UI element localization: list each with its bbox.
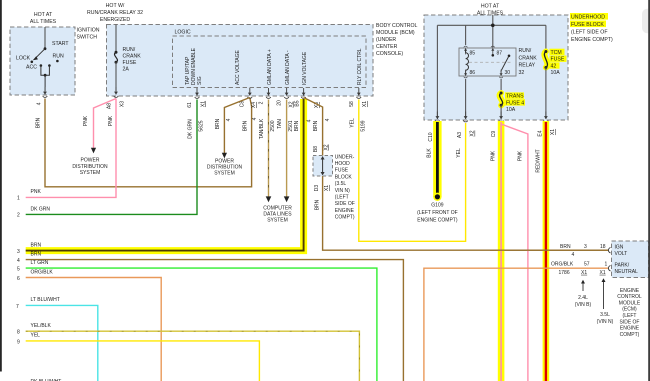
svg-text:ACC: ACC	[26, 65, 37, 71]
ECM pin IGN VOLT	[608, 244, 627, 256]
svg-text:UNDERHOOD: UNDERHOOD	[571, 14, 605, 20]
svg-text:TAN/BLK: TAN/BLK	[259, 118, 265, 139]
run/crank fuse 2A	[114, 25, 141, 92]
svg-text:IGN: IGN	[615, 244, 624, 250]
svg-text:X1: X1	[201, 101, 207, 107]
svg-text:PNK: PNK	[83, 115, 89, 126]
svg-text:MODULE (BCM): MODULE (BCM)	[376, 30, 415, 36]
svg-text:RELAY: RELAY	[519, 63, 536, 69]
label: HOT AT ALL TIMES (right)	[477, 3, 504, 16]
wire PNK 1 from BCM fuse to left edge	[17, 99, 116, 202]
wire YEL (wire 9)	[17, 333, 259, 381]
svg-text:SIDE OF: SIDE OF	[619, 319, 639, 325]
pin 2 GMLAN DATA +	[259, 49, 274, 104]
label: HOT AT ALL TIMES (left)	[30, 12, 57, 25]
svg-text:X4: X4	[251, 102, 257, 108]
svg-text:4: 4	[17, 258, 20, 264]
svg-text:8: 8	[17, 330, 20, 336]
svg-text:YEL: YEL	[349, 118, 355, 128]
relay switch contacts	[492, 54, 511, 73]
svg-text:FUSE: FUSE	[551, 57, 565, 63]
svg-text:3: 3	[17, 249, 20, 255]
wire ORG/BLK 1786 to ECM PARK/NEUTRAL	[424, 268, 608, 381]
svg-text:30: 30	[505, 70, 511, 76]
svg-text:TCM: TCM	[551, 50, 562, 56]
svg-text:IGN VOLTAGE: IGN VOLTAGE	[302, 51, 308, 85]
svg-text:YEL: YEL	[456, 148, 462, 158]
wire LT BLU/WHT (wire 7)	[16, 297, 98, 381]
relay coil	[466, 50, 469, 74]
svg-text:BLK: BLK	[427, 148, 433, 158]
pin B8 X2 of underhood fuse block	[313, 144, 330, 152]
pin 58 X1 RLY COIL CTRL	[349, 48, 368, 107]
svg-text:GMLAN DATA +: GMLAN DATA +	[267, 49, 273, 85]
svg-text:HOOD: HOOD	[335, 161, 350, 167]
svg-text:X1: X1	[581, 270, 587, 276]
svg-text:6: 6	[17, 276, 20, 282]
svg-text:(VIN B): (VIN B)	[575, 302, 592, 308]
svg-text:MODULE: MODULE	[619, 300, 641, 306]
svg-text:57: 57	[584, 262, 590, 268]
svg-text:4: 4	[252, 117, 258, 120]
svg-text:YEL: YEL	[31, 333, 41, 339]
svg-text:5199: 5199	[361, 120, 367, 131]
svg-text:CENTER: CENTER	[376, 44, 398, 50]
ignition switch wiper	[33, 47, 47, 60]
labels BRN 3 18 / 4 on ECM ign volt wire	[560, 244, 606, 258]
arrow 3.5L (VIN N)	[597, 278, 614, 325]
ignition switch feed wire	[44, 27, 46, 49]
svg-text:PNK: PNK	[31, 189, 42, 195]
label: RUN/ CRANK RELAY 32	[519, 48, 538, 76]
svg-text:CONSOLE): CONSOLE)	[376, 51, 403, 57]
svg-text:58: 58	[349, 101, 355, 107]
svg-text:FUSE 4: FUSE 4	[506, 100, 524, 106]
wire BRN 4 from IGN VOLTAGE to ECM IGN VOLT	[304, 98, 608, 251]
svg-text:1: 1	[17, 196, 20, 202]
svg-text:(LEFT: (LEFT	[623, 313, 637, 319]
wire BRN 4 (wire 4, left edge to bottom)	[17, 251, 403, 381]
wire BRN 4 highlighted (IGN VOLTAGE to left edge, wire 3)	[17, 99, 313, 255]
svg-text:BRN: BRN	[31, 242, 42, 248]
svg-text:61: 61	[187, 102, 193, 108]
svg-text:ENGINE: ENGINE	[620, 326, 640, 332]
engine control module box	[612, 241, 649, 278]
svg-text:(VIN N): (VIN N)	[597, 319, 614, 325]
pin B5 X3 IGN VOLTAGE	[294, 51, 320, 108]
svg-text:ACC VOLTAGE: ACC VOLTAGE	[235, 50, 241, 85]
svg-text:DISTRIBUTION: DISTRIBUTION	[72, 164, 108, 170]
svg-text:4: 4	[37, 102, 43, 105]
svg-text:LOCK: LOCK	[16, 56, 31, 62]
underhood fuse block (3.5L VIN N) pass-through box	[313, 156, 333, 177]
svg-text:HOT W/: HOT W/	[106, 3, 125, 9]
svg-text:(LEFT SIDE OF: (LEFT SIDE OF	[571, 29, 608, 35]
run/crank relay 32 box	[459, 48, 516, 76]
svg-text:ENERGIZED: ENERGIZED	[100, 17, 131, 23]
svg-text:X1: X1	[362, 101, 368, 107]
label: HOT W/ RUN/CRANK RELAY 32 ENERGIZED	[87, 3, 143, 23]
svg-text:X1: X1	[550, 129, 556, 135]
svg-text:BRN: BRN	[294, 120, 300, 131]
svg-text:LT GRN: LT GRN	[31, 260, 49, 266]
svg-text:E4: E4	[538, 130, 544, 136]
svg-text:B5: B5	[294, 100, 300, 106]
wire DK BLU/WHT label (bottom edge)	[31, 379, 62, 381]
svg-text:START: START	[52, 41, 69, 47]
svg-text:BLOCK: BLOCK	[335, 175, 353, 181]
svg-text:DATA LINES: DATA LINES	[263, 211, 292, 217]
svg-text:RED/WHT: RED/WHT	[535, 149, 541, 172]
wire DK GRN 5625 / wire 2	[17, 100, 205, 219]
svg-text:RUN/CRANK RELAY 32: RUN/CRANK RELAY 32	[87, 10, 143, 16]
svg-text:2.4L: 2.4L	[578, 295, 588, 301]
svg-text:87: 87	[497, 51, 503, 57]
wire YEL 5199 from RLY COIL CTRL to relay coil	[349, 100, 465, 242]
svg-text:BRN: BRN	[36, 117, 42, 128]
svg-text:X2: X2	[470, 130, 476, 136]
labels ORG/BLK 57 1 / 1786 X1 X1	[551, 262, 608, 276]
TCM FUSE 42 10A (highlighted)	[544, 25, 566, 116]
label: IGNITION SWITCH	[77, 28, 100, 41]
svg-text:BRN: BRN	[215, 118, 221, 129]
svg-text:ENGINE COMPT): ENGINE COMPT)	[417, 218, 458, 224]
wire LT GRN (wire 5, left edge to bottom)	[17, 260, 377, 381]
svg-text:4: 4	[572, 252, 575, 258]
label: POWER DISTRIBUTION SYSTEM (left)	[72, 158, 108, 176]
TRANS FUSE 4 10A (highlighted)	[500, 79, 525, 116]
svg-text:SWITCH: SWITCH	[77, 35, 98, 41]
svg-text:7: 7	[16, 304, 19, 310]
node ACC contacts	[40, 64, 51, 67]
svg-text:RLY COIL CTRL: RLY COIL CTRL	[357, 48, 363, 85]
label: BODY CONTROL MODULE (BCM)	[376, 23, 418, 57]
svg-text:ENGINE COMPT): ENGINE COMPT)	[571, 37, 613, 43]
wire PNK branch to power distribution	[83, 99, 116, 154]
svg-text:PARK/: PARK/	[615, 262, 630, 268]
svg-text:9: 9	[17, 339, 20, 345]
pin 61 X1 TAP UP/TAP DOWN ENABLE SIG	[185, 47, 207, 107]
svg-text:18: 18	[600, 244, 606, 250]
svg-text:POWER: POWER	[215, 158, 234, 164]
svg-text:DK GRN: DK GRN	[31, 206, 51, 212]
pin A3 X2	[457, 112, 476, 139]
svg-text:BRN: BRN	[31, 251, 42, 257]
label: ENGINE CONTROL MODULE (ECM)	[617, 288, 642, 338]
svg-text:SIDE OF: SIDE OF	[335, 201, 355, 207]
pin C9	[491, 112, 503, 138]
svg-text:ENGINE: ENGINE	[335, 208, 355, 214]
svg-text:FUSE: FUSE	[335, 168, 349, 174]
svg-text:DK GRN: DK GRN	[188, 119, 194, 139]
pin E4 X1	[538, 112, 557, 137]
svg-text:RUN/: RUN/	[519, 48, 532, 54]
svg-text:CONTROL: CONTROL	[617, 294, 642, 300]
svg-text:UNDER-: UNDER-	[335, 154, 355, 160]
pin C8 X4 ACC VOLTAGE	[235, 50, 257, 109]
svg-text:A3: A3	[457, 132, 463, 138]
svg-text:42: 42	[551, 63, 557, 69]
svg-text:ORG/BLK: ORG/BLK	[551, 262, 574, 268]
svg-text:PNK: PNK	[491, 150, 497, 161]
node LOCK contact	[31, 61, 34, 64]
svg-text:D3: D3	[314, 185, 320, 192]
svg-text:POWER: POWER	[81, 158, 100, 164]
svg-text:DISTRIBUTION: DISTRIBUTION	[207, 165, 243, 171]
node RUN contact	[56, 60, 59, 63]
svg-text:(LEFT FRONT OF: (LEFT FRONT OF	[417, 210, 458, 216]
wire YEL/BLK (wire 8)	[17, 323, 359, 381]
pin D3 X1 of underhood fuse block	[314, 185, 330, 211]
wire RED/WHT highlighted from pin E4 to bottom	[535, 121, 546, 381]
svg-text:32: 32	[519, 70, 525, 76]
svg-text:X3: X3	[120, 101, 126, 107]
svg-text:YEL/BLK: YEL/BLK	[31, 323, 52, 329]
svg-text:SYSTEM: SYSTEM	[214, 171, 235, 177]
svg-text:GMLAN DATA -: GMLAN DATA -	[285, 50, 291, 85]
svg-text:10A: 10A	[551, 70, 561, 76]
pin A8 X3 of BCM fuse	[107, 87, 126, 109]
svg-text:FUSE BLOCK: FUSE BLOCK	[571, 22, 604, 28]
right page border	[648, 0, 650, 381]
svg-text:SYSTEM: SYSTEM	[80, 170, 101, 176]
svg-text:SYSTEM: SYSTEM	[267, 218, 288, 224]
svg-text:X1: X1	[600, 270, 606, 276]
svg-text:(3.5L: (3.5L	[335, 181, 347, 187]
ignition switch output bracket	[41, 66, 50, 92]
BCM outer box	[107, 25, 374, 97]
wire TAN/BLK 2500 to computer data lines	[259, 100, 276, 203]
svg-text:PNK: PNK	[108, 115, 114, 126]
label: COMPUTER DATA LINES SYSTEM	[263, 205, 292, 223]
pin 20 X2 GMLAN DATA -	[277, 50, 295, 107]
wire PNK branch from pin C9 to bottom	[501, 124, 528, 381]
svg-text:RUN: RUN	[53, 54, 64, 60]
svg-text:COMPT): COMPT)	[620, 332, 640, 338]
label: UNDERHOOD FUSE BLOCK (highlighted)	[570, 13, 613, 43]
svg-text:VOLT: VOLT	[615, 251, 628, 257]
underhood fuse block box (right)	[424, 15, 568, 120]
ECM pin PARK/NEUTRAL	[608, 262, 638, 275]
svg-text:85: 85	[470, 51, 476, 57]
LOGIC box	[173, 30, 367, 88]
svg-text:COMPT): COMPT)	[335, 214, 355, 220]
svg-text:1786: 1786	[559, 270, 570, 276]
svg-text:TRANS: TRANS	[506, 94, 524, 100]
svg-text:NEUTRAL: NEUTRAL	[615, 269, 639, 275]
svg-text:2: 2	[17, 213, 20, 219]
svg-text:4: 4	[226, 118, 232, 121]
wire ORG/BLK (wire 6, left edge down at x=161)	[17, 269, 161, 381]
svg-text:4: 4	[325, 118, 331, 121]
ground G109	[417, 193, 458, 224]
svg-text:4: 4	[307, 119, 313, 122]
svg-text:BODY CONTROL: BODY CONTROL	[376, 23, 418, 29]
svg-text:ENGINE: ENGINE	[620, 288, 640, 294]
svg-text:ORG/BLK: ORG/BLK	[31, 269, 54, 275]
svg-text:ALL TIMES: ALL TIMES	[30, 19, 57, 25]
svg-text:G109: G109	[431, 202, 443, 208]
svg-text:(LEFT: (LEFT	[335, 195, 349, 201]
wire BRN to ECM overlay (crosses highlighted wires)	[490, 249, 608, 251]
svg-text:BRN: BRN	[560, 244, 571, 250]
pin 4 of ignition switch	[37, 87, 48, 105]
wire TAN 2501 to computer data lines	[277, 100, 294, 203]
svg-text:5: 5	[17, 267, 20, 273]
svg-text:2500: 2500	[270, 120, 276, 131]
feed wire and bus inside fuse block	[437, 15, 546, 116]
ignition switch box	[10, 27, 75, 95]
relay pin 86	[464, 70, 476, 78]
svg-text:3.5L: 3.5L	[600, 312, 610, 318]
label: POWER DISTRIBUTION SYSTEM (center)	[207, 158, 243, 176]
svg-text:CRANK: CRANK	[519, 55, 538, 61]
wire from relay pin 86 to pin A3	[465, 79, 467, 116]
svg-text:X1: X1	[324, 185, 330, 191]
svg-text:20: 20	[277, 100, 283, 106]
svg-text:(UNDER: (UNDER	[376, 37, 396, 43]
svg-text:HOT AT: HOT AT	[481, 3, 500, 9]
svg-text:B8: B8	[313, 146, 319, 152]
svg-text:ALL TIMES: ALL TIMES	[477, 10, 504, 16]
svg-text:IGNITION: IGNITION	[77, 28, 100, 34]
svg-text:C9: C9	[491, 131, 497, 138]
svg-text:CRANK: CRANK	[123, 54, 142, 60]
label BRN 4 on ignition feed riser	[243, 117, 258, 131]
scrollbar thumb	[642, 9, 650, 34]
pin C10	[428, 112, 440, 142]
label: UNDER-HOOD FUSE BLOCK (3.5L VIN N)	[335, 154, 355, 220]
svg-text:BRN: BRN	[313, 120, 319, 131]
svg-text:2: 2	[259, 101, 265, 104]
svg-text:10A: 10A	[506, 107, 516, 113]
svg-text:HOT AT: HOT AT	[34, 12, 53, 18]
svg-text:TAN: TAN	[277, 119, 283, 129]
relay pin 30	[499, 70, 510, 78]
arrow 2.4L (VIN B)	[575, 280, 592, 308]
svg-text:RUN/: RUN/	[123, 47, 136, 53]
left page border	[0, 0, 2, 372]
relay pin 85	[464, 46, 476, 56]
svg-text:86: 86	[470, 70, 476, 76]
svg-text:X2: X2	[324, 144, 330, 150]
svg-text:COMPUTER: COMPUTER	[263, 205, 292, 211]
wire PNK highlighted from pin C9 to bottom	[491, 121, 502, 381]
relay pin 87	[491, 46, 502, 56]
svg-text:LT BLU/WHT: LT BLU/WHT	[31, 297, 60, 303]
svg-text:(ECM): (ECM)	[622, 307, 637, 313]
svg-text:SIG: SIG	[197, 76, 203, 85]
svg-text:PNK: PNK	[517, 150, 523, 161]
svg-text:FUSE: FUSE	[123, 60, 137, 66]
wire YEL from pin A3 (label)	[456, 148, 462, 158]
svg-text:A8: A8	[107, 103, 113, 109]
svg-text:5625: 5625	[199, 120, 205, 131]
svg-text:2A: 2A	[123, 67, 130, 73]
wire BLK highlighted to G109	[427, 121, 438, 197]
wire BRN 4 to power distribution (center)	[215, 98, 250, 159]
ignition switch position labels	[16, 41, 69, 71]
wire BRN from ignition switch pin 4 to BCM ACC VOLTAGE	[36, 98, 252, 187]
svg-text:BRN: BRN	[315, 199, 321, 210]
svg-text:BRN: BRN	[243, 120, 249, 131]
svg-text:C10: C10	[428, 132, 434, 141]
svg-text:VIN N): VIN N)	[335, 188, 350, 194]
svg-text:3: 3	[584, 244, 587, 250]
svg-text:LOGIC: LOGIC	[175, 30, 191, 36]
svg-text:1: 1	[605, 262, 608, 268]
